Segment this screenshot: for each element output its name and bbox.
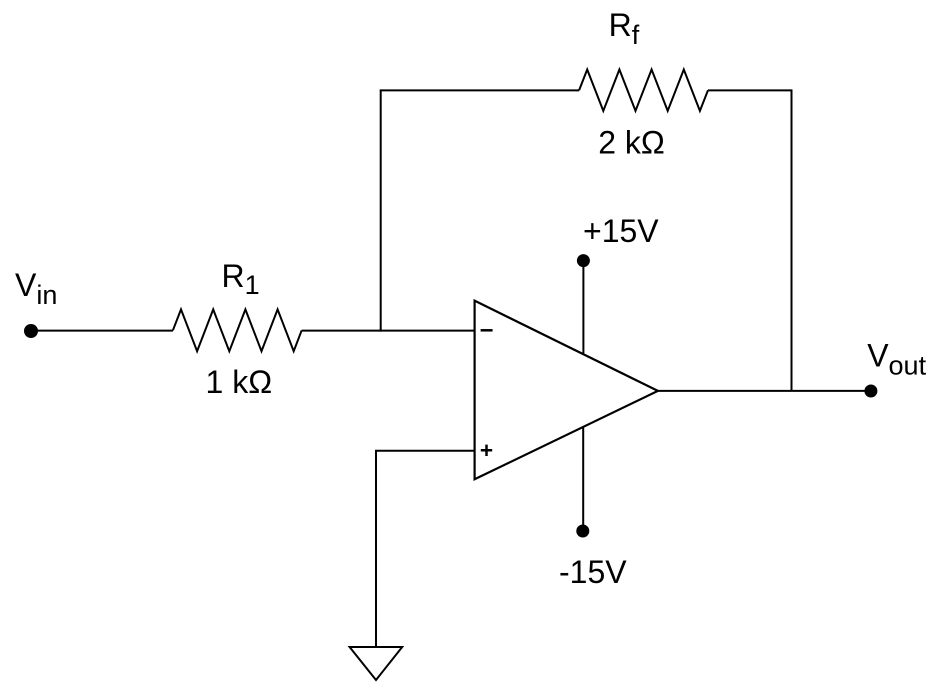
svg-text:2 kΩ: 2 kΩ (598, 125, 665, 161)
wire non-inverting input to ground (376, 451, 475, 648)
svg-text:1 kΩ: 1 kΩ (206, 364, 273, 400)
wire feedback top left (380, 89, 579, 91)
wire feedback top right (708, 89, 793, 91)
non-inverting input marker plus (481, 445, 492, 456)
wire feedback left vertical (380, 90, 382, 331)
wire output (658, 390, 870, 392)
svg-text:+15V: +15V (583, 213, 659, 249)
inverting input marker minus (481, 329, 493, 332)
svg-text:Vout: Vout (867, 337, 926, 380)
supply -15V wire (582, 427, 584, 531)
resistor R1 (173, 309, 302, 351)
node +15V (577, 254, 590, 267)
supply +15V wire (582, 261, 584, 354)
wire feedback right vertical (791, 90, 793, 391)
svg-text:-15V: -15V (559, 554, 627, 590)
svg-text:Rf: Rf (609, 7, 640, 50)
resistor Rf (579, 70, 708, 111)
node -15V (576, 525, 589, 538)
op-amp U1 (475, 301, 658, 480)
wire Vin to R1 (31, 330, 173, 332)
node Vin terminal (24, 324, 38, 338)
node Vout (864, 385, 877, 398)
ground (350, 647, 403, 680)
svg-text:Vin: Vin (15, 267, 57, 310)
svg-text:R1: R1 (222, 258, 260, 300)
wire R1 to inverting input (302, 330, 475, 332)
